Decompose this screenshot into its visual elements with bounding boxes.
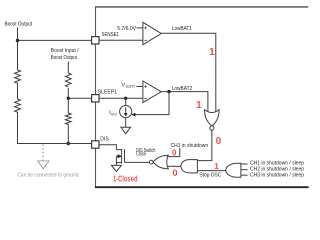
ground under M1 bbox=[111, 165, 121, 171]
resistor R3 bbox=[65, 73, 71, 87]
svg-text:LowBAT2: LowBAT2 bbox=[172, 86, 193, 92]
current source IHYS bbox=[125, 98, 127, 105]
resistor R1 bbox=[15, 70, 21, 83]
wire DIS pin to switch bbox=[99, 145, 116, 150]
IC block top border bbox=[95, 6, 308, 8]
wire SENSE1 internal to comparator bbox=[99, 39, 143, 41]
wire SLEEP1 internal to comparator bbox=[99, 97, 143, 99]
svg-text:0: 0 bbox=[216, 136, 222, 147]
junction col2 / bottom wire bbox=[67, 142, 70, 145]
wire CH1 in shutdown leader bbox=[167, 148, 180, 157]
wire U6 output (DIS switch gate drive) bbox=[125, 161, 150, 163]
wire SENSE1 external bbox=[18, 39, 92, 41]
svg-text:Close: Close bbox=[136, 151, 146, 157]
wire SLEEP1 external bbox=[68, 97, 91, 99]
transistor M1 (DIS switch NMOS) bbox=[116, 149, 124, 166]
pin DIS bbox=[92, 141, 99, 148]
wire U4 output to U6 input bbox=[167, 165, 181, 167]
AND gate U4 (mirrored) bbox=[181, 160, 197, 173]
resistor R2 bbox=[15, 99, 21, 112]
NOR gate U3 bbox=[205, 110, 220, 126]
svg-text:Boost Input /: Boost Input / bbox=[51, 48, 79, 54]
svg-text:0: 0 bbox=[172, 168, 177, 179]
svg-text:Can be connected to ground: Can be connected to ground bbox=[17, 173, 78, 179]
junction col2 / SLEEP1 wire bbox=[67, 97, 70, 100]
wire hysteresis feedback bbox=[135, 92, 170, 115]
comparator U1 bbox=[143, 22, 161, 44]
svg-text:SLEEP1: SLEEP1 bbox=[98, 89, 118, 95]
pin SENSE1 bbox=[92, 37, 99, 44]
wire VSLEEP1 reference lead bbox=[136, 86, 143, 88]
AND gate U5 (3 channel inputs, mirrored) bbox=[226, 163, 241, 177]
wire col2 vertical (Boost Input rail) bbox=[67, 62, 69, 144]
svg-text:SENSE1: SENSE1 bbox=[102, 32, 120, 38]
NOR gate U6 (mirrored) bbox=[153, 155, 168, 169]
ground (optional, dashed grey) bbox=[42, 144, 44, 160]
comparator U2 bbox=[143, 81, 161, 103]
svg-text:DIS: DIS bbox=[100, 136, 109, 142]
resistor R4 bbox=[65, 113, 71, 125]
junction Boost Output / SENSE1 wire bbox=[16, 39, 19, 42]
wire CH2 stub bbox=[241, 169, 248, 171]
wire LowBAT1 bbox=[161, 33, 216, 112]
svg-text:HYS: HYS bbox=[111, 112, 117, 116]
wire CH1 stub bbox=[241, 163, 248, 165]
junction LowBAT2 / hysteresis feedback bbox=[167, 90, 170, 93]
wire bottom rail to DIS bbox=[17, 143, 92, 145]
svg-text:1: 1 bbox=[214, 161, 219, 171]
pin SLEEP1 bbox=[92, 95, 99, 102]
wire Stop OSC bbox=[197, 170, 226, 172]
IC block bottom border bbox=[95, 186, 309, 188]
svg-text:SLEEP1: SLEEP1 bbox=[126, 84, 135, 89]
junction SLEEP1 / IHYS bbox=[124, 97, 127, 100]
svg-text:CH3 in shutdown / sleep: CH3 in shutdown / sleep bbox=[250, 172, 304, 178]
svg-text:1: 1 bbox=[209, 46, 215, 58]
svg-text:LowBAT1: LowBAT1 bbox=[172, 26, 192, 32]
svg-text:1: 1 bbox=[196, 100, 202, 111]
svg-text:5.7/6.0V: 5.7/6.0V bbox=[117, 26, 136, 32]
wire U3 output to U4 bbox=[197, 130, 211, 160]
wire col1 vertical (Boost Output rail) bbox=[17, 28, 19, 144]
IC block left border bbox=[95, 6, 97, 186]
svg-text:Stop OSC: Stop OSC bbox=[199, 173, 221, 179]
wire LowBAT2 bbox=[161, 92, 208, 112]
wire CH3 stub bbox=[241, 174, 248, 176]
ground under IHYS bbox=[125, 118, 127, 128]
svg-text:0: 0 bbox=[172, 149, 177, 158]
svg-text:Boost Output: Boost Output bbox=[51, 55, 77, 61]
wire 5.7/6.0V reference lead bbox=[137, 27, 143, 29]
svg-text:1-Closed: 1-Closed bbox=[113, 173, 138, 183]
svg-text:Boost Output: Boost Output bbox=[5, 21, 33, 27]
